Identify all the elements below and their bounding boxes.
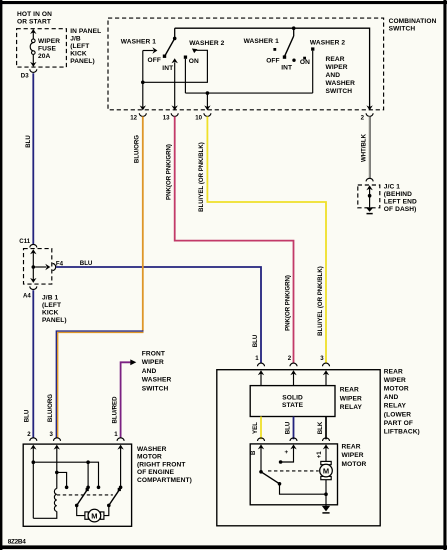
washer motor M1 enclosure <box>23 444 131 526</box>
svg-text:LEFT END: LEFT END <box>384 199 417 206</box>
junction washer node a <box>32 460 36 464</box>
svg-text:WIPER: WIPER <box>142 359 164 366</box>
switch SW1 blade <box>163 38 175 58</box>
connector arc washer pin 1 <box>117 438 124 441</box>
svg-text:OF ENGINE: OF ENGINE <box>137 469 175 476</box>
park contact dot upper <box>279 460 283 464</box>
wire washer contact bus <box>33 462 98 487</box>
wire BLU relay to motor <box>293 417 295 440</box>
contact WASHER2 square (rear) <box>311 47 314 50</box>
wire feed bus (top horizontal to pin 2) <box>175 28 370 110</box>
svg-text:RELAY: RELAY <box>384 403 407 410</box>
svg-text:BLU/YEL (OR PNK/BLK): BLU/YEL (OR PNK/BLK) <box>317 266 324 336</box>
fuse WIPER FUSE 20A <box>30 38 60 60</box>
svg-text:OFF: OFF <box>148 57 161 64</box>
motor terminal plus entry arrow up <box>281 444 297 462</box>
park switch blade <box>261 472 279 483</box>
svg-text:WASHER: WASHER <box>137 446 167 453</box>
svg-text:13: 13 <box>163 115 170 122</box>
contact dot b <box>86 486 90 490</box>
junction node in J/C1 <box>368 194 372 198</box>
wire WHT/BLK from pin 2 down to J/C 1 <box>368 116 370 178</box>
svg-text:BLU: BLU <box>252 334 259 347</box>
J/C 1 label <box>384 184 417 214</box>
svg-text:D3: D3 <box>21 72 29 79</box>
rear pin 1 entry arrow up <box>258 370 264 385</box>
svg-text:(BEHIND: (BEHIND <box>384 191 412 198</box>
washer pin 1 entry arrow up <box>117 445 123 487</box>
svg-text:REAR: REAR <box>384 368 403 375</box>
node junction at rear blade pivot <box>292 26 296 30</box>
contact OFF arrow (front) <box>143 47 158 53</box>
svg-text:MOTOR: MOTOR <box>384 386 409 393</box>
connector C11 arc <box>30 244 37 247</box>
svg-text:AND: AND <box>142 368 157 375</box>
connector A4 arc <box>30 286 37 289</box>
wire BLK relay to motor <box>325 417 327 440</box>
svg-text:BLK: BLK <box>317 421 324 434</box>
connector arc at J/C 1 <box>366 178 373 181</box>
svg-text:SOLID: SOLID <box>282 394 303 401</box>
svg-text:SWITCH: SWITCH <box>326 88 353 95</box>
motor M rear <box>320 461 333 479</box>
motor terminal plus1 entry arrow up <box>323 444 329 461</box>
svg-text:OF DASH): OF DASH) <box>384 206 417 213</box>
svg-text:SWITCH: SWITCH <box>389 26 416 33</box>
connector arc washer pin 3 <box>54 438 61 441</box>
svg-text:BLU/YEL (OR PNK/BLK): BLU/YEL (OR PNK/BLK) <box>198 142 205 212</box>
svg-text:OFF: OFF <box>266 57 279 64</box>
svg-text:WASHER: WASHER <box>326 80 356 87</box>
connector arc washer pin 2 <box>30 438 37 441</box>
contact dot f <box>119 486 123 490</box>
contact dot e <box>65 486 69 490</box>
rear wiper motor and relay outer enclosure <box>217 370 380 526</box>
svg-text:COMPARTMENT): COMPARTMENT) <box>137 477 192 484</box>
rear wiper motor label <box>342 443 367 468</box>
svg-text:20A: 20A <box>38 53 51 60</box>
wire J/B1 down branch, arrow down <box>30 267 36 283</box>
svg-text:J/B: J/B <box>70 36 81 43</box>
wire BLU/YEL (OR PNK/BLK) from pin 10 to rear relay pin 3 <box>207 116 326 363</box>
contact INT dot (rear) <box>292 59 295 62</box>
svg-text:PANEL): PANEL) <box>42 317 67 324</box>
svg-text:IN PANEL: IN PANEL <box>70 28 101 35</box>
wire BLU/RED from washer pin 1 up to front wiper switch arrow <box>121 362 131 437</box>
wire pin3 branch to contact e <box>57 472 67 487</box>
J/C 1 dashed enclosure <box>358 185 380 208</box>
svg-text:REAR: REAR <box>342 443 361 450</box>
mechanical link dashed (washer switches) <box>57 494 113 496</box>
wire pivot B to motor <box>104 505 109 515</box>
node HOT IN ON OR START label <box>17 11 52 25</box>
svg-text:AND: AND <box>384 394 399 401</box>
wire into J/B1, arrow up <box>30 249 36 267</box>
relay U1 solid state box <box>250 386 335 417</box>
wire BLU from A4 down to washer motor pin 2 <box>32 290 34 437</box>
connector arc pin 2 <box>366 113 373 116</box>
washer pin 2 entry arrow up <box>30 445 36 519</box>
svg-text:M: M <box>91 511 97 520</box>
wire pin10 stem with connector arrow <box>204 93 210 110</box>
svg-text:WHT/BLK: WHT/BLK <box>360 133 367 162</box>
motor M washer <box>85 509 104 522</box>
mechanical link dashed (rear motor) <box>268 470 319 472</box>
svg-text:ON: ON <box>300 59 310 66</box>
svg-text:BLU: BLU <box>24 409 31 422</box>
svg-text:BLU: BLU <box>285 421 292 434</box>
park switch pivot dot <box>259 470 263 474</box>
svg-text:RELAY: RELAY <box>340 404 363 411</box>
svg-text:FRONT: FRONT <box>142 350 165 357</box>
switch blade A (washer) <box>75 488 89 507</box>
rear wiper and washer switch label <box>326 56 356 95</box>
solid state label <box>282 394 304 409</box>
connector D3 arc below fuse box <box>30 69 37 72</box>
ground symbol rear motor <box>322 506 330 513</box>
contact OFF mark (rear) <box>273 48 276 51</box>
wire YEL relay to motor <box>260 417 262 440</box>
switch SW1 front: pivot stem <box>174 28 176 38</box>
connector arc motor plus1 <box>323 438 330 441</box>
svg-text:BLU/RED: BLU/RED <box>111 396 118 424</box>
In-Panel J/B label <box>70 28 101 65</box>
switch SW2 rear: blade stem and blade <box>283 28 294 59</box>
svg-text:PNK(OR PNK/GRN): PNK(OR PNK/GRN) <box>284 275 291 331</box>
svg-text:B: B <box>250 450 257 455</box>
svg-text:LIFTBACK): LIFTBACK) <box>384 429 420 436</box>
svg-text:YEL: YEL <box>252 422 259 434</box>
wire into fuse from top, arrow up <box>30 29 36 39</box>
rear pin 2 entry arrow up <box>290 370 296 385</box>
combination switch label <box>389 18 437 33</box>
wire from fuse to box bottom, arrow down <box>30 54 36 67</box>
svg-text:SWITCH: SWITCH <box>142 386 169 393</box>
wire coil to bottom bus <box>33 511 57 518</box>
washer pin 3 entry arrow up <box>54 445 60 489</box>
svg-text:STATE: STATE <box>282 402 304 409</box>
fuse box (In-Panel J/B) dashed enclosure <box>17 29 67 67</box>
wire pivot A to motor <box>77 505 86 515</box>
junction washer node b <box>86 460 90 464</box>
svg-text:10: 10 <box>195 115 202 122</box>
svg-text:INT: INT <box>162 65 173 72</box>
connector arc motor plus <box>290 438 297 441</box>
wire INT contact to pin 13 (vertical with connector arrow) <box>172 58 178 110</box>
contact WASHER 2 arrow (front) <box>192 49 198 54</box>
svg-text:PNK(OR PNK/GRN): PNK(OR PNK/GRN) <box>166 144 173 200</box>
svg-text:A4: A4 <box>23 292 31 299</box>
svg-text:WIPER: WIPER <box>340 395 362 402</box>
connector arc pin 12 <box>139 113 146 116</box>
svg-text:COMBINATION: COMBINATION <box>389 18 437 25</box>
wire PNK (OR PNK/GRN) from pin 13 to rear relay pin 2 <box>175 116 294 363</box>
wire J/B1 right branch to F4, arrow right <box>33 264 50 270</box>
J/B 1 label <box>42 294 67 324</box>
junction ground node <box>324 492 328 496</box>
svg-text:WIPER: WIPER <box>342 452 364 459</box>
arrowhead to front wiper and washer switch <box>130 359 136 365</box>
wire BLU from fuse D3 down to C11 <box>32 73 34 245</box>
connector arc pin 10 <box>204 113 211 116</box>
washer motor label <box>137 446 192 484</box>
connector arc motor S <box>258 438 265 441</box>
svg-text:WASHER: WASHER <box>142 377 172 384</box>
svg-text:WIPER: WIPER <box>384 377 406 384</box>
svg-text:1: 1 <box>114 431 118 438</box>
svg-text:BLU/ORG: BLU/ORG <box>134 135 141 163</box>
svg-text:J/C 1: J/C 1 <box>384 184 400 191</box>
wire motor to ground <box>325 480 327 507</box>
rear pin 3 entry arrow up <box>323 370 329 385</box>
park contact dot lower <box>278 482 282 486</box>
junction pin10 node <box>206 91 210 95</box>
J/B 1 dashed enclosure <box>24 249 52 285</box>
combination switch dashed enclosure <box>108 18 384 110</box>
connector arc rear pin 1 <box>258 363 265 366</box>
svg-text:WASHER 1: WASHER 1 <box>121 38 156 45</box>
svg-text:+1: +1 <box>316 451 323 459</box>
svg-text:M: M <box>323 466 329 475</box>
svg-text:(RIGHT FRONT: (RIGHT FRONT <box>137 461 185 468</box>
svg-text:WASHER 1: WASHER 1 <box>244 38 279 45</box>
svg-text:HOT IN ON: HOT IN ON <box>17 11 52 18</box>
svg-text:WASHER 2: WASHER 2 <box>189 40 224 47</box>
wire pin12 bus to washer2 contact <box>143 50 208 82</box>
connector F4 arc <box>53 264 56 271</box>
contact ON square (rear) <box>303 57 306 60</box>
svg-text:KICK: KICK <box>70 51 87 58</box>
wire contact drop b <box>87 462 89 487</box>
svg-text:MOTOR: MOTOR <box>137 454 162 461</box>
svg-text:PART OF: PART OF <box>384 420 413 427</box>
svg-text:FUSE: FUSE <box>38 45 56 52</box>
svg-text:WIPER: WIPER <box>326 64 348 71</box>
svg-text:J/B 1: J/B 1 <box>42 294 58 301</box>
svg-text:ON: ON <box>189 58 199 65</box>
wire ON contact down to pin10 bus <box>184 59 186 93</box>
switch blade B (washer) <box>107 488 121 507</box>
svg-text:OR START: OR START <box>17 18 51 25</box>
connector arc rear pin 2 <box>290 363 297 366</box>
svg-text:REAR: REAR <box>326 56 345 63</box>
svg-text:8Z2B4: 8Z2B4 <box>8 538 26 545</box>
connector arc rear pin 3 <box>323 363 330 366</box>
junction in J/B1 <box>32 265 36 269</box>
ground symbol in J/C1 <box>366 207 374 213</box>
svg-text:(LEFT: (LEFT <box>70 43 89 50</box>
svg-text:(LEFT: (LEFT <box>42 302 61 309</box>
svg-text:+: + <box>284 450 291 454</box>
front wiper and washer switch label <box>142 350 172 392</box>
contact dot c <box>97 486 101 490</box>
svg-text:AND: AND <box>326 72 341 79</box>
rear wiper relay label <box>340 387 363 412</box>
junction washer node d <box>55 471 59 475</box>
contact ON square (front) <box>184 56 187 59</box>
svg-text:KICK: KICK <box>42 309 59 316</box>
wire OFF contact to pin 12 (vertical with connector arrow) <box>140 51 146 111</box>
svg-text:2: 2 <box>27 431 31 438</box>
svg-text:BLU: BLU <box>80 260 93 267</box>
wire pin10 bus horizontal <box>185 92 312 94</box>
washer resistor coil <box>54 489 56 512</box>
svg-text:PANEL): PANEL) <box>70 58 95 65</box>
junction pin12 node <box>141 81 145 85</box>
connector arc pin 13 <box>171 113 178 116</box>
wire into J/C1 arrow up <box>366 185 372 207</box>
wire BLU from F4 right then down to rear relay pin 1 <box>56 267 261 363</box>
svg-text:12: 12 <box>130 115 137 122</box>
wire park contact to ground bus <box>280 484 327 494</box>
svg-text:BLU/ORG: BLU/ORG <box>47 394 54 422</box>
motor terminal B entry arrow up <box>258 444 264 471</box>
wire BLU/ORG corner to washer pin 3 (two-tone blue/orange) <box>56 331 143 437</box>
rear wiper motor and relay label <box>384 368 420 435</box>
svg-text:MOTOR: MOTOR <box>342 461 367 468</box>
svg-text:INT: INT <box>281 65 292 72</box>
svg-text:WASHER 2: WASHER 2 <box>310 40 345 47</box>
wire BLU/ORG from pin 12 down (orange segment) <box>142 116 144 330</box>
wire washer2 rear contact down to pin10 bus <box>312 51 314 93</box>
svg-text:WIPER: WIPER <box>38 38 60 45</box>
svg-text:REAR: REAR <box>340 387 359 394</box>
wire pin 2 connector arrow <box>366 105 372 110</box>
svg-text:C11: C11 <box>19 238 30 245</box>
svg-text:(LOWER: (LOWER <box>384 411 411 418</box>
rear wiper motor M2 enclosure <box>250 444 337 505</box>
switch SW1 pivot <box>173 37 177 41</box>
svg-text:BLU: BLU <box>25 135 32 148</box>
